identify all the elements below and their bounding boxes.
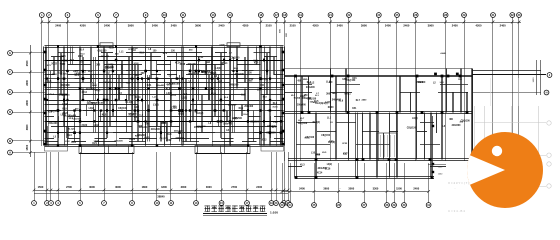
svg-text:C8@150: C8@150: [59, 93, 69, 96]
bottom-left overall dimension line: [34, 193, 288, 195]
grid bubble axis 11 bottom-left: [169, 201, 174, 206]
svg-text:240x500: 240x500: [176, 137, 185, 140]
grid bubble axis F left: [8, 70, 13, 75]
svg-text:2400: 2400: [362, 98, 368, 101]
tick axis 26: [414, 21, 417, 24]
svg-text:2400: 2400: [385, 23, 391, 27]
right block bottom beam: [296, 177, 434, 179]
svg-text:2400: 2400: [299, 186, 305, 190]
grid bubble axis 17 bottom-left: [245, 201, 250, 206]
grid bubble axis 30 bottom-right: [402, 203, 407, 208]
grid bubble axis 4 bottom-left: [56, 201, 61, 206]
left block left edge: [44, 47, 46, 146]
svg-text:KL2(4): KL2(4): [294, 97, 301, 100]
grid bubble axis 1 bottom-left: [32, 201, 37, 206]
right block columns: [331, 75, 334, 78]
svg-text:240x500: 240x500: [229, 84, 239, 87]
svg-text:C8@150: C8@150: [160, 138, 169, 140]
grid bubble axis 11 top: [181, 13, 186, 18]
left block beam y121: [45, 121, 284, 123]
grid bubble axis 29 top: [462, 13, 467, 18]
svg-text:KL8: KL8: [254, 62, 259, 64]
grid bubble axis 32 top: [510, 13, 515, 18]
svg-text:G: G: [9, 51, 11, 55]
svg-text:240x400: 240x400: [48, 122, 58, 125]
left block small end bays: [45, 146, 68, 152]
svg-text:KL9: KL9: [62, 108, 67, 110]
grid line axis 8 bottom: [132, 152, 134, 201]
svg-text:LL1: LL1: [119, 51, 124, 53]
left block thin beam y78.6: [45, 78, 284, 80]
left block thin beam y132.7: [45, 132, 284, 134]
grid bubble axis 7 top: [114, 13, 119, 18]
svg-text:C8@150: C8@150: [346, 80, 356, 82]
svg-text:200x400: 200x400: [244, 105, 254, 108]
tick axis 13: [212, 21, 215, 24]
grid line axis 26: [415, 17, 417, 161]
svg-text:KL4: KL4: [67, 134, 72, 137]
svg-text:4C14: 4C14: [109, 47, 115, 50]
svg-text:LL1: LL1: [326, 81, 331, 84]
svg-text:A: A: [9, 151, 11, 155]
grid bubble axis 4 top: [65, 13, 70, 18]
grid line axis 28 bottom-right: [386, 163, 388, 203]
grid bubble axis 13 bottom-left: [194, 201, 199, 206]
left block mid beam y88.5: [45, 88, 284, 90]
right block lower-right details: [432, 116, 434, 178]
orange watermark logo: [467, 132, 543, 208]
grid bubble axis 2 top: [47, 13, 52, 18]
grid bubble axis 29 bottom-right: [392, 203, 397, 208]
grid line axis 4 bottom: [58, 152, 60, 201]
svg-text:2C22: 2C22: [166, 140, 172, 142]
svg-text:KL4: KL4: [80, 49, 85, 52]
left block horizontal beams: [58, 52, 75, 54]
svg-text:1500: 1500: [25, 144, 29, 150]
grid bubble axis 13 top: [211, 13, 216, 18]
svg-text:3900: 3900: [128, 23, 134, 27]
grid line axis 33: [518, 17, 520, 161]
svg-text:3000: 3000: [348, 186, 354, 190]
svg-text:2C22: 2C22: [129, 139, 135, 141]
grid bubble axis 23 bottom-right: [280, 203, 285, 208]
svg-text:KL6: KL6: [307, 82, 312, 84]
grid bubble axis H right: [544, 90, 549, 95]
grid bubble axis 16 top: [258, 13, 263, 18]
svg-text:KL9: KL9: [70, 60, 75, 62]
tick axis 18: [283, 21, 286, 24]
grid bubble axis 18 top: [282, 13, 287, 18]
svg-text:2100: 2100: [266, 23, 272, 27]
left block thin beam y110.5: [45, 110, 284, 112]
left block thin beam y100: [45, 100, 284, 102]
grid line axis G: [12, 52, 45, 54]
grid line axis 23 bottom-right: [282, 163, 284, 203]
stair shaft: [377, 133, 397, 159]
svg-text:L3(2): L3(2): [211, 72, 217, 75]
svg-text:2400: 2400: [500, 23, 506, 27]
svg-text:3C16: 3C16: [180, 63, 186, 66]
svg-text:2C22: 2C22: [261, 139, 267, 141]
grid bubble axis 24 bottom-right: [288, 203, 293, 208]
grid line axis 3 bottom: [50, 152, 52, 201]
grid line axis 19 bottom: [271, 152, 273, 201]
svg-text:2400: 2400: [219, 23, 225, 27]
svg-text:KL5: KL5: [140, 52, 145, 54]
svg-text:L1(2): L1(2): [63, 104, 69, 106]
left block vertical beams: [46, 116, 48, 146]
grid bubble axis 22 bottom-left: [286, 201, 291, 206]
grid bubble axis G left: [8, 51, 13, 56]
grid bubble axis E left: [8, 90, 13, 95]
svg-text:2400: 2400: [171, 23, 177, 27]
svg-text:3900: 3900: [428, 23, 434, 27]
svg-text:L3(2): L3(2): [327, 164, 333, 166]
grid line axis 30 bottom-right: [404, 163, 406, 203]
svg-text:L6(2): L6(2): [61, 73, 66, 75]
svg-text:2500: 2500: [25, 60, 29, 66]
svg-text:L6(2): L6(2): [166, 93, 172, 95]
svg-text:KZ1: KZ1: [61, 56, 66, 58]
svg-text:240x500: 240x500: [86, 88, 96, 91]
svg-text:B: B: [9, 139, 11, 143]
tick axis 2: [48, 21, 51, 24]
svg-text:1800: 1800: [161, 123, 167, 125]
svg-text:KL6: KL6: [72, 141, 77, 144]
svg-text:3000: 3000: [115, 185, 121, 189]
top dimension line: [42, 22, 521, 24]
grid line axis E: [12, 92, 45, 94]
svg-text:KL2(4): KL2(4): [313, 121, 320, 124]
svg-text:4C14: 4C14: [175, 61, 181, 64]
grid bubble axis J right: [547, 73, 552, 78]
grid bubble axis 6 top: [96, 13, 101, 18]
svg-text:L6(2): L6(2): [61, 114, 67, 116]
left block beam y60: [45, 60, 284, 62]
svg-text:2400: 2400: [108, 64, 114, 67]
grid bubble axis 24 top: [376, 13, 381, 18]
svg-text:C8@150: C8@150: [407, 127, 417, 130]
svg-text:H: H: [546, 91, 548, 95]
svg-text:300: 300: [96, 64, 101, 67]
left block thin beam y71: [45, 70, 284, 72]
svg-text:L3(2): L3(2): [232, 118, 238, 120]
grid line axis 2 bottom: [46, 152, 48, 201]
tick axis 24: [378, 21, 381, 24]
svg-text:240x400: 240x400: [103, 81, 112, 84]
grid line axis 26 bottom-right: [338, 163, 340, 203]
grid bubble axis 31 top: [491, 13, 496, 18]
svg-text:L3(2): L3(2): [89, 108, 95, 110]
svg-text:KL8: KL8: [166, 88, 171, 91]
grid bubble axis 3 bottom-left: [49, 201, 54, 206]
grid line axis 9: [145, 17, 147, 146]
svg-text:L3(2): L3(2): [215, 68, 221, 70]
svg-text:3300: 3300: [373, 186, 379, 190]
svg-text:3800: 3800: [25, 124, 29, 130]
svg-text:L1(2): L1(2): [325, 102, 331, 104]
grid bubble axis 9 top: [143, 13, 148, 18]
grid bubble axis 28 bottom-right: [385, 203, 390, 208]
right extension beams to bubbles: [472, 74, 546, 76]
grid bubble axis B left: [8, 139, 13, 144]
svg-text:180x400: 180x400: [235, 73, 245, 76]
svg-text:2700: 2700: [66, 185, 72, 189]
svg-text:KL5: KL5: [253, 60, 258, 62]
tick axis 14: [229, 21, 232, 24]
grid bubble axis 19 bottom-left: [269, 201, 274, 206]
svg-text:C8@100: C8@100: [298, 123, 308, 125]
grid bubble axis 14 top: [228, 13, 233, 18]
grid bubble axis 21 top: [328, 13, 333, 18]
left block center beam: [164, 47, 166, 146]
svg-text:180x400: 180x400: [188, 63, 197, 66]
grid line axis 22 bottom: [288, 152, 290, 201]
svg-text:C8@150: C8@150: [50, 110, 60, 113]
grid line axis 29 bottom-right: [394, 163, 396, 203]
tick axis 1: [40, 21, 43, 24]
svg-text:3000: 3000: [206, 185, 212, 189]
grid line axis 31: [492, 17, 494, 161]
grid line axis 1 bottom: [34, 152, 36, 201]
svg-text:1800: 1800: [332, 93, 338, 95]
svg-text:L6(2): L6(2): [412, 118, 418, 120]
left block right edge: [283, 47, 285, 146]
svg-text:L1(2): L1(2): [95, 90, 101, 92]
tick axis 21: [329, 21, 332, 24]
svg-text:2600: 2600: [25, 79, 29, 85]
grid line axis 11: [182, 17, 184, 146]
svg-text:4200: 4200: [476, 23, 482, 27]
svg-text:2400: 2400: [92, 84, 97, 87]
tick axis 4: [66, 21, 69, 24]
svg-text:2700: 2700: [231, 185, 237, 189]
svg-text:LL1: LL1: [69, 118, 74, 120]
svg-text:WKL1: WKL1: [344, 93, 351, 95]
tick axis 33: [518, 21, 521, 24]
grid line axis 15 bottom: [221, 152, 223, 201]
grid bubble axis 26 top: [413, 13, 418, 18]
svg-text:2C22: 2C22: [51, 63, 57, 66]
tick axis 19: [299, 21, 302, 24]
grid line axis F: [12, 72, 45, 74]
svg-text:1:100: 1:100: [270, 210, 278, 214]
right block top main beam: [285, 76, 472, 77]
grid line axis 14: [230, 17, 232, 146]
grid line axis 7 bottom: [104, 152, 106, 201]
svg-text:L1(2): L1(2): [144, 137, 149, 139]
grid line axis A: [12, 152, 45, 154]
grid line axis 27 bottom-right: [364, 163, 366, 203]
svg-text:KL7: KL7: [272, 127, 277, 129]
svg-text:L6(2): L6(2): [178, 112, 184, 115]
right block horizontal beam segments: [285, 92, 312, 94]
svg-text:L10: L10: [135, 106, 140, 109]
grid line axis 2: [48, 17, 50, 146]
svg-text:2400: 2400: [452, 23, 458, 27]
svg-text:C8@200: C8@200: [61, 85, 71, 87]
svg-text:200x400: 200x400: [416, 81, 426, 84]
svg-text:3C16: 3C16: [129, 115, 135, 117]
svg-text:4C14: 4C14: [193, 72, 199, 75]
svg-text:KL5: KL5: [102, 114, 107, 116]
svg-text:3000: 3000: [89, 185, 95, 189]
grid line axis 32: [512, 17, 514, 161]
watermark white wedge: [467, 155, 505, 185]
svg-text:KL6: KL6: [273, 103, 278, 105]
tick axis 28: [444, 21, 447, 24]
tick axis 7: [115, 21, 118, 24]
grid line axis 10: [164, 17, 166, 146]
svg-text:180x400: 180x400: [68, 114, 77, 117]
tick axis 10: [163, 21, 166, 24]
grid bubble axis 7 bottom-left: [102, 201, 107, 206]
grid line axis 21 bottom: [284, 152, 286, 201]
grid line axis 17: [276, 17, 278, 146]
svg-text:C8@150: C8@150: [73, 119, 82, 121]
svg-text:LL1: LL1: [329, 141, 334, 143]
svg-text:E: E: [9, 90, 11, 94]
svg-text:300: 300: [326, 93, 331, 96]
grid bubble axis 28 top: [443, 13, 448, 18]
svg-text:4200: 4200: [242, 23, 248, 27]
left block top bump 2: [227, 43, 240, 47]
grid line axis 20 bottom: [276, 152, 278, 201]
grid bubble axis 17 top: [274, 13, 279, 18]
right block top thin beam: [285, 68, 472, 70]
grid bubble axis 20 bottom-left: [274, 201, 279, 206]
grid bubble axis A left: [8, 150, 13, 155]
svg-text:1500: 1500: [396, 186, 402, 190]
grid bubble axis 22 top: [347, 13, 352, 18]
bottom-left dimension line: [34, 190, 288, 192]
svg-text:C8@100: C8@100: [305, 137, 315, 139]
grid bubble axis D left: [8, 110, 13, 115]
svg-text:KL9: KL9: [239, 108, 244, 110]
svg-text:KZ1: KZ1: [147, 84, 152, 87]
svg-text:KL9: KL9: [339, 99, 344, 102]
right block vertical beams: [295, 76, 297, 178]
svg-text:240x500: 240x500: [452, 124, 462, 127]
grid line axis 13 bottom: [196, 152, 198, 201]
svg-text:-: -: [455, 186, 456, 190]
svg-text:2600: 2600: [25, 99, 29, 105]
svg-text:3900: 3900: [195, 23, 201, 27]
svg-text:2400: 2400: [413, 186, 419, 190]
grid line axis D: [12, 112, 45, 114]
grid line axis 22: [348, 17, 350, 161]
svg-text:LL1: LL1: [327, 117, 332, 119]
watermark white dot: [492, 146, 502, 156]
svg-text:4200: 4200: [80, 23, 86, 27]
grid bubble axis 2 bottom-left: [45, 201, 50, 206]
svg-text:C8@200: C8@200: [230, 57, 240, 59]
grid bubble axis 1 top: [39, 13, 44, 18]
svg-text:KL5: KL5: [314, 101, 319, 103]
faint adjacent wing: [474, 106, 476, 186]
left dimension line: [30, 45, 32, 157]
tick axis 9: [144, 21, 147, 24]
svg-text:2400: 2400: [403, 23, 409, 27]
svg-text:200x400: 200x400: [297, 104, 306, 107]
svg-text:KL7: KL7: [343, 153, 348, 156]
svg-text:L6(2): L6(2): [75, 73, 80, 75]
svg-text:KL3: KL3: [300, 164, 305, 166]
svg-text:4.448: 4.448: [219, 43, 225, 46]
svg-text:200x400: 200x400: [302, 97, 312, 100]
grid bubble axis 10 top: [162, 13, 167, 18]
title underline: [203, 213, 267, 215]
grid line axis 4: [67, 17, 69, 146]
grid bubble axis 25 top: [395, 13, 400, 18]
left block balcony bay 1: [79, 146, 134, 154]
svg-text:C8@200: C8@200: [197, 126, 206, 128]
svg-text:KL1(2): KL1(2): [68, 129, 75, 131]
grid line axis 1: [41, 17, 43, 146]
svg-text:2100: 2100: [290, 23, 296, 27]
grid line axis 31 bottom-right: [428, 163, 430, 203]
svg-text:200x400: 200x400: [228, 103, 237, 106]
grid bubble axis 27 bottom-right: [362, 203, 367, 208]
svg-text:240x400: 240x400: [101, 55, 110, 58]
svg-text:4C14: 4C14: [135, 96, 141, 99]
svg-text:2C22: 2C22: [248, 79, 254, 81]
svg-text:240x500: 240x500: [137, 134, 147, 137]
svg-text:C8@150: C8@150: [321, 135, 330, 137]
grid line axis 6: [98, 17, 100, 146]
right block lower beam: [288, 159, 470, 161]
svg-text:C = 3 4 - B 4: C = 3 4 - B 4: [448, 209, 465, 213]
svg-text:2400: 2400: [52, 73, 58, 76]
tick axis 6: [97, 21, 100, 24]
grid bubble axis 19 top: [298, 13, 303, 18]
tick axis 25: [396, 21, 399, 24]
svg-text:2400: 2400: [152, 23, 158, 27]
grid line axis 17 bottom: [246, 152, 248, 201]
grid bubble axis 25 bottom-right: [312, 203, 317, 208]
svg-text:C8@150: C8@150: [266, 132, 276, 135]
right block mid beam: [285, 112, 472, 114]
tick axis 11: [182, 21, 185, 24]
svg-text:3900: 3900: [361, 23, 367, 27]
svg-text:2C22: 2C22: [82, 124, 88, 127]
grid line axis 11 bottom: [170, 152, 172, 201]
svg-text:1800: 1800: [161, 185, 167, 189]
grid line axis 25 bottom-right: [314, 163, 316, 203]
grid bubble axis 31 bottom-right: [426, 203, 431, 208]
grid bubble axis 26 bottom-right: [336, 203, 341, 208]
svg-text:4200: 4200: [313, 23, 319, 27]
svg-text:1500: 1500: [38, 185, 44, 189]
svg-text:200x400: 200x400: [114, 139, 123, 142]
svg-text:3600: 3600: [323, 186, 329, 190]
grid bubble axis 10 bottom-left: [155, 201, 160, 206]
grid line axis 29: [464, 17, 466, 161]
svg-text:WKL1: WKL1: [221, 63, 228, 65]
svg-text:KL2(4): KL2(4): [261, 78, 269, 81]
svg-text:2C22: 2C22: [342, 143, 348, 145]
grid line axis 28: [445, 17, 447, 161]
right block left edge: [284, 69, 286, 113]
grid bubble axis 15 bottom-left: [219, 201, 224, 206]
svg-text:LL3: LL3: [241, 94, 246, 97]
tick axis 16: [260, 21, 263, 24]
svg-text:2400: 2400: [256, 185, 262, 189]
svg-text:2400: 2400: [55, 23, 61, 27]
svg-text:3C16: 3C16: [272, 106, 278, 108]
tick axis 22: [348, 21, 351, 24]
svg-text:2400: 2400: [78, 55, 84, 58]
